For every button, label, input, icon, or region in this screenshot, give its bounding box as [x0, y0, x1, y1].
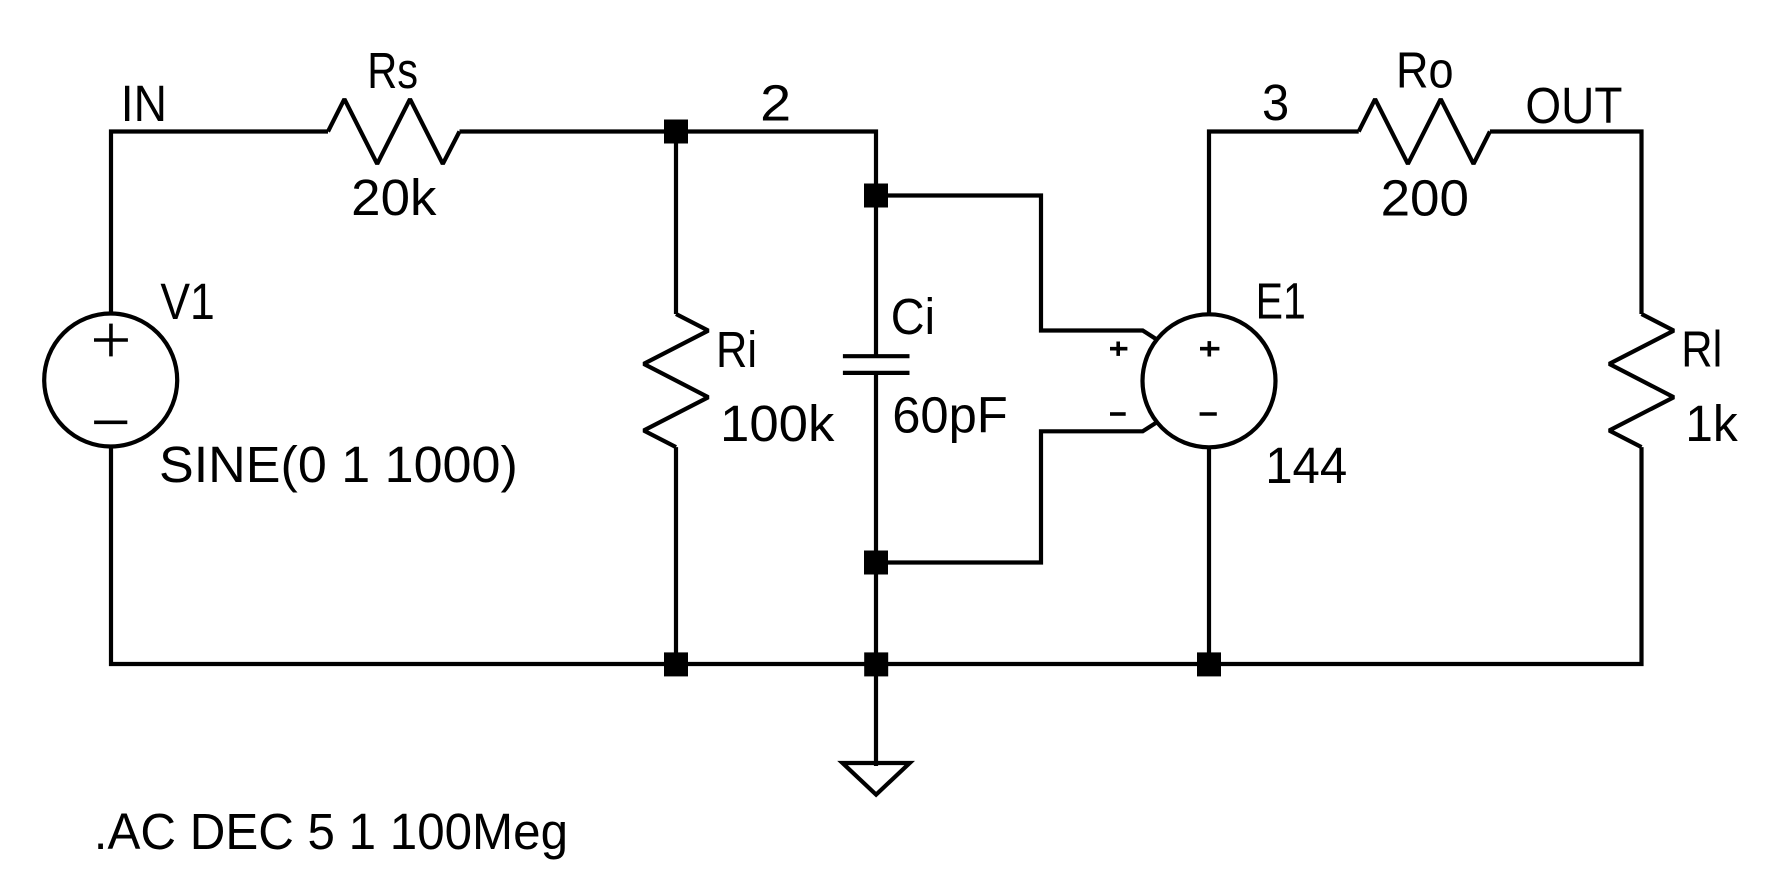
- svg-text:200: 200: [1381, 170, 1469, 227]
- svg-text:SINE(0 1 1000): SINE(0 1 1000): [159, 436, 518, 493]
- svg-text:100k: 100k: [720, 395, 835, 452]
- svg-text:2: 2: [760, 75, 791, 132]
- svg-text:20k: 20k: [351, 169, 437, 226]
- svg-text:.AC DEC 5 1 100Meg: .AC DEC 5 1 100Meg: [94, 803, 568, 860]
- svg-text:IN: IN: [121, 75, 167, 132]
- svg-text:Ci: Ci: [891, 288, 935, 345]
- svg-text:V1: V1: [160, 273, 214, 330]
- svg-text:3: 3: [1262, 74, 1289, 131]
- svg-text:E1: E1: [1256, 272, 1306, 329]
- svg-text:Ro: Ro: [1396, 42, 1454, 99]
- svg-text:60pF: 60pF: [892, 387, 1008, 444]
- svg-text:Ri: Ri: [716, 321, 757, 378]
- svg-text:Rs: Rs: [367, 42, 418, 99]
- svg-text:1k: 1k: [1685, 395, 1738, 452]
- svg-text:OUT: OUT: [1525, 77, 1622, 134]
- svg-text:Rl: Rl: [1681, 321, 1722, 378]
- svg-text:144: 144: [1265, 437, 1347, 494]
